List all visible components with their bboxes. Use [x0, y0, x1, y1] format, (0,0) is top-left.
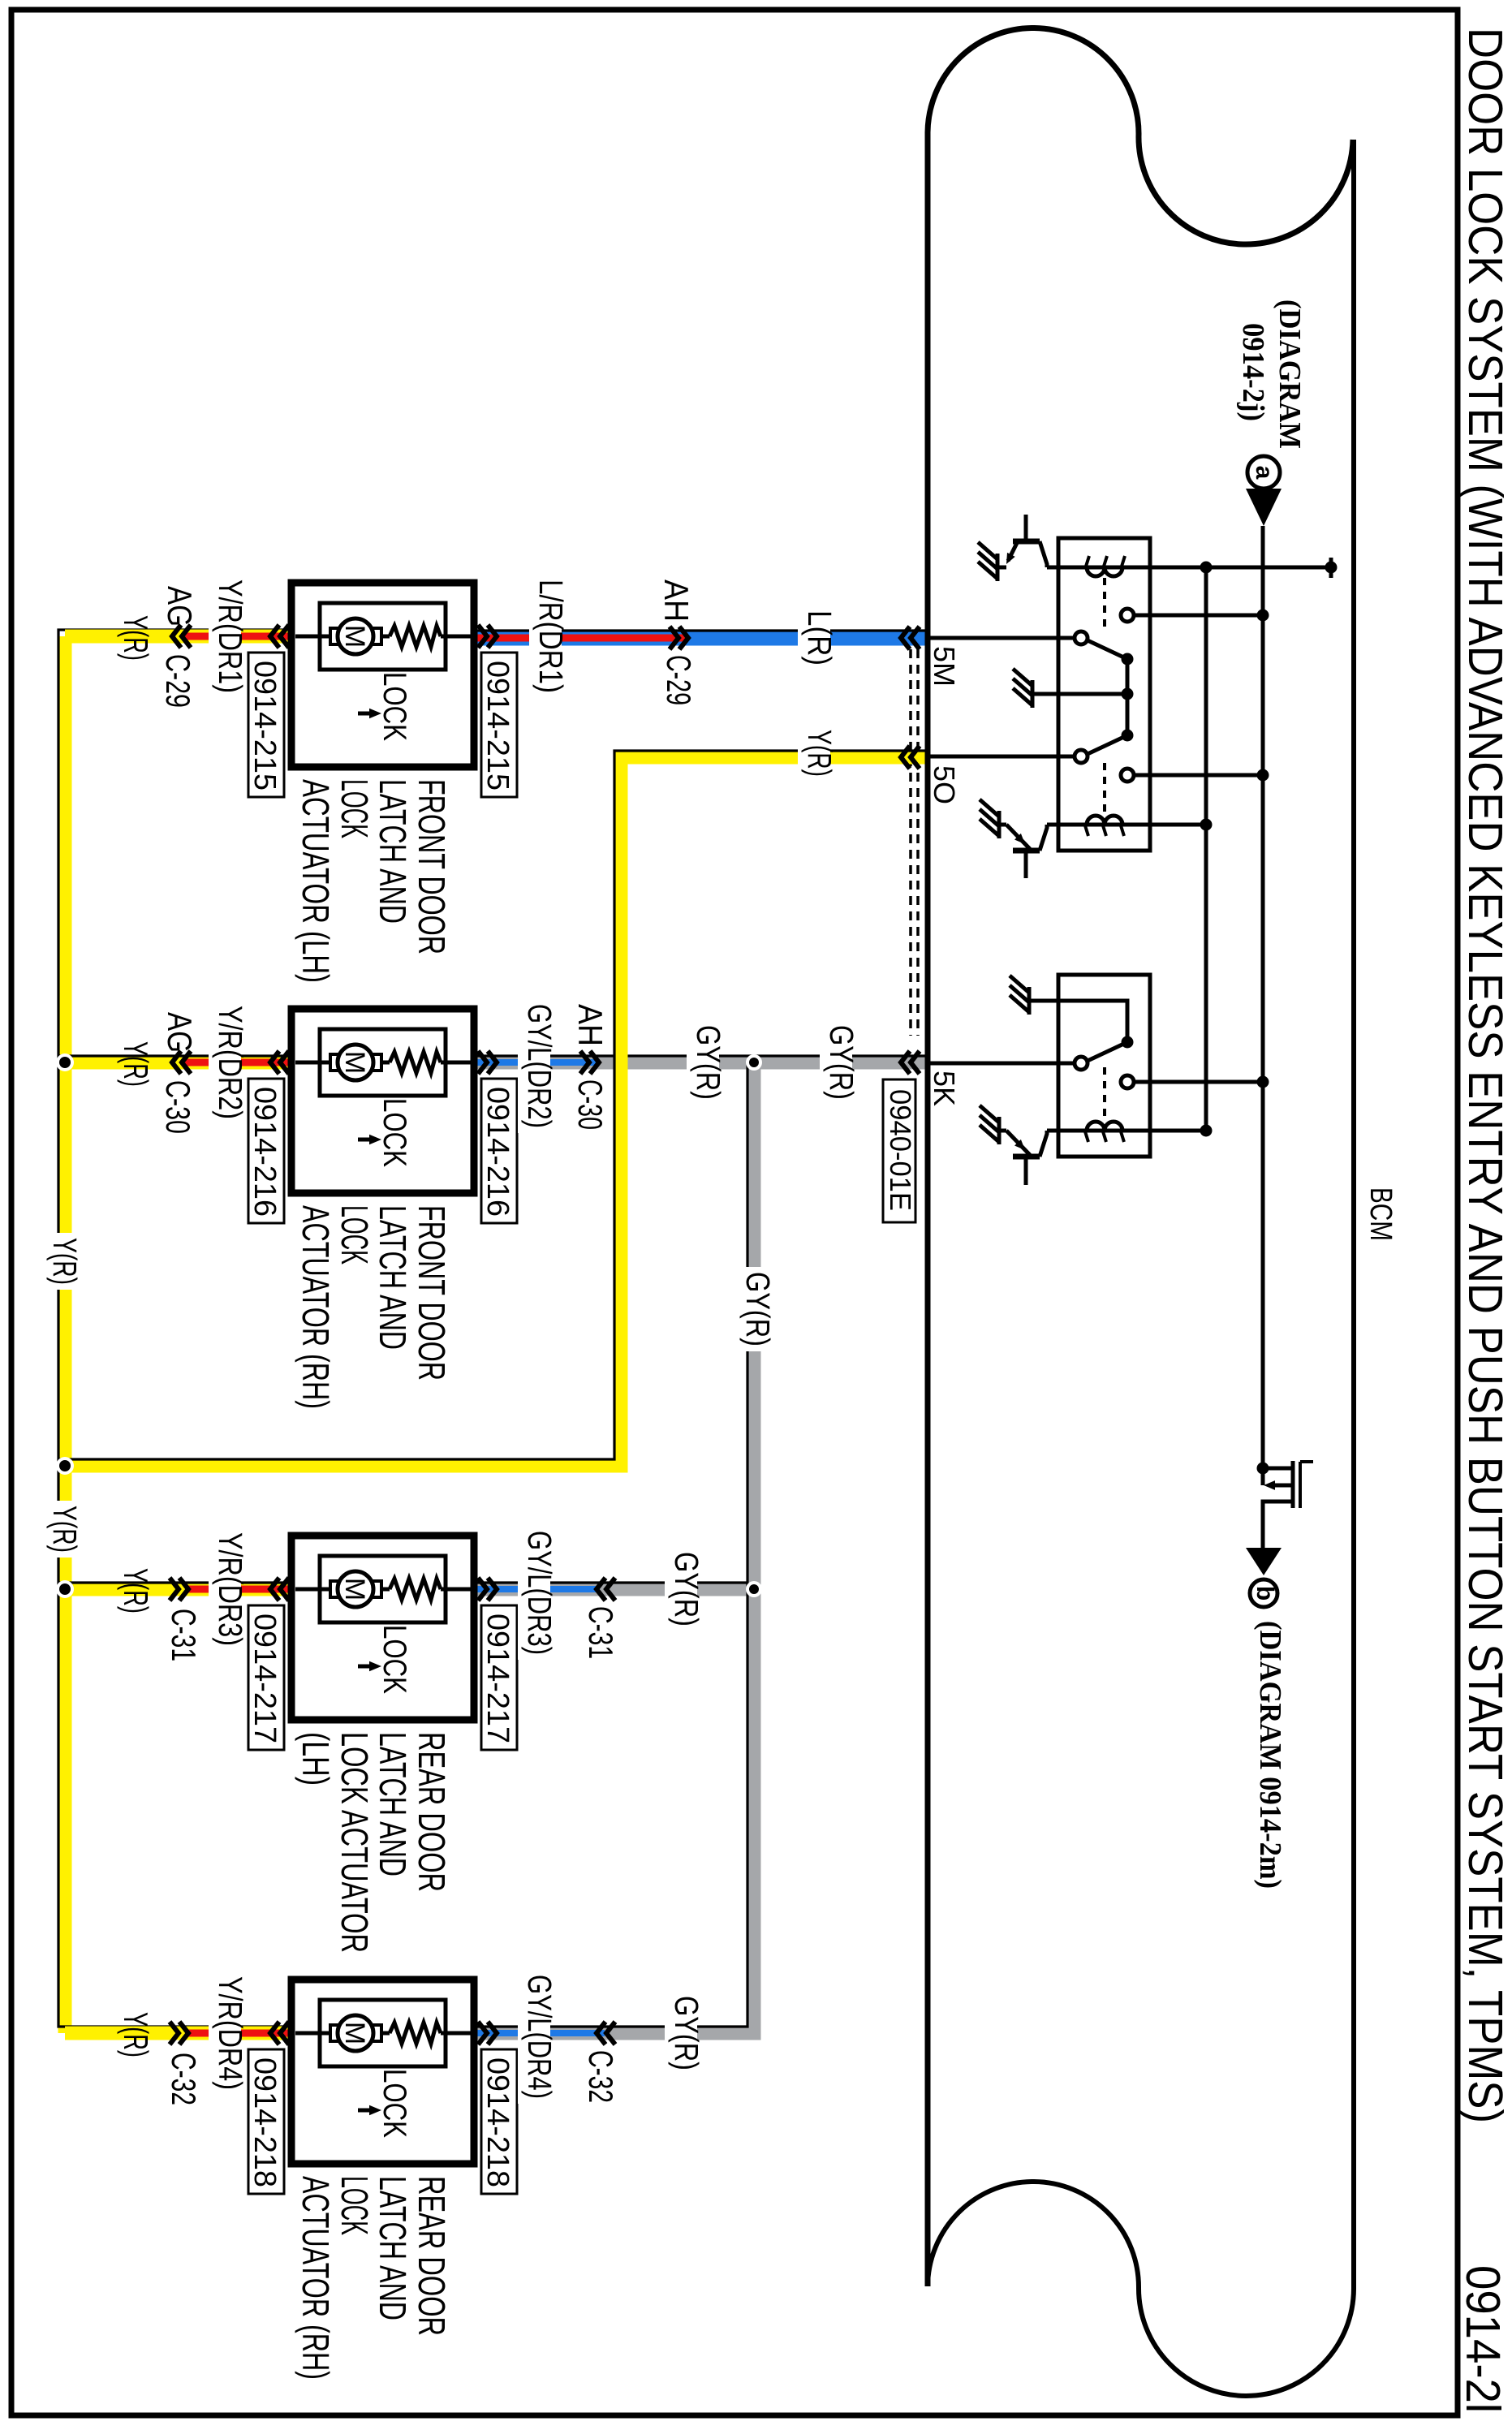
svg-text:ACTUATOR (RH): ACTUATOR (RH) [295, 2176, 337, 2380]
svg-text:LOCK: LOCK [334, 1205, 376, 1265]
wire: GY(R) gray from rear LH actuator [472, 1583, 754, 1596]
coil K2 [1087, 1122, 1122, 1131]
contact K2 NC [1121, 1075, 1134, 1088]
label GY(R) x2 on 5K row [687, 1020, 719, 1105]
label Y/R(DR3) [209, 1527, 241, 1651]
svg-text:GY(R): GY(R) [690, 1025, 727, 1100]
svg-text:Y/R(DR3): Y/R(DR3) [212, 1532, 249, 1646]
wire: arm common link [1126, 659, 1130, 735]
svg-text:0914-216: 0914-216 [480, 1087, 515, 1217]
connector AG C-29 chevron [172, 625, 181, 648]
svg-text:M: M [339, 1578, 370, 1601]
contact K2 COM [1075, 1057, 1088, 1070]
wire: Q2 emitter to ground [999, 823, 1006, 827]
svg-text:0914-2l: 0914-2l [1456, 2265, 1510, 2413]
connector label box 0940-01E [883, 1079, 915, 1222]
wire: node a/b line [1261, 526, 1265, 1485]
connector 0914-215 chevron at box (right) [488, 625, 497, 648]
svg-text:LOCK: LOCK [377, 2069, 412, 2138]
svg-text:ACTUATOR (RH): ACTUATOR (RH) [295, 1205, 337, 1409]
label Y/R(DR2) [209, 1001, 241, 1124]
contact K1 COM2 [1075, 750, 1088, 763]
svg-text:Y(R): Y(R) [801, 730, 838, 777]
svg-text:C-32: C-32 [582, 2050, 620, 2103]
svg-text:Y/R(DR1): Y/R(DR1) [212, 579, 249, 693]
svg-text:(LH): (LH) [295, 1732, 337, 1786]
node b marker (DIAGRAM 0914-2m) [1246, 1548, 1282, 1575]
svg-text:0940-01E: 0940-01E [884, 1089, 917, 1211]
connector C-32 chevron (return) [597, 2022, 605, 2044]
wire: L(R) blue from front LH actuator to BCM 5M [472, 631, 930, 646]
transistor Q1 (coil1 driver) [1013, 539, 1040, 545]
connector 0914-215 chevron at box (left) [270, 625, 279, 648]
connector 0914-216 chevron at box (left) [270, 1051, 279, 1074]
wire: 5K to relay 2 contact [930, 1062, 1075, 1066]
svg-text:Y(R): Y(R) [46, 1506, 84, 1553]
wire: K1 NC2 to node a line [1133, 773, 1263, 778]
svg-text:C-32: C-32 [165, 2053, 203, 2105]
wire: Y/R(DR4) red stripe [185, 2030, 292, 2037]
svg-text:AG: AG [161, 586, 199, 627]
wire: 5O to relay 1 contact [930, 755, 1075, 759]
svg-text:FRONT DOOR: FRONT DOOR [411, 779, 453, 954]
svg-text:GY(R): GY(R) [739, 1272, 777, 1346]
svg-text:LOCK: LOCK [377, 1098, 412, 1167]
connector 0914-218 chevron at box (left) [270, 2022, 279, 2044]
wire: Y(R) branch to rear door LH actuator [65, 1583, 294, 1596]
wire: Y/R(DR1) red stripe [185, 633, 292, 640]
relay K1 actuation dashes [1103, 578, 1106, 631]
actuator box C-32 [291, 1980, 474, 2164]
svg-text:C-31: C-31 [582, 1606, 620, 1659]
svg-text:DOOR LOCK SYSTEM (WITH ADVANCE: DOOR LOCK SYSTEM (WITH ADVANCED KEYLESS … [1458, 28, 1512, 2123]
svg-text:GY(R): GY(R) [668, 1996, 705, 2070]
relay K2 actuation dashes [1103, 1067, 1106, 1122]
wire: GY(R) gray from rear RH actuator + vertical trunk [472, 1062, 754, 2033]
node: rail stub [1329, 558, 1333, 578]
node: gray junction rear LH [746, 1581, 762, 1597]
relay K1 box [1058, 538, 1150, 851]
svg-text:REAR DOOR: REAR DOOR [411, 2176, 453, 2336]
connector C-32 chevron (feed) [179, 2022, 188, 2044]
connector C-31 chevron (return) [597, 1578, 605, 1601]
contact K1 NC1 [1121, 609, 1134, 622]
svg-text:Y(R): Y(R) [117, 2012, 155, 2057]
label: Y(R) on bus (lower) [43, 1501, 75, 1558]
svg-text:M: M [339, 625, 370, 648]
contact K1 NC2 [1121, 769, 1134, 782]
coil K1b [1087, 816, 1122, 825]
svg-text:b: b [1251, 1586, 1278, 1601]
svg-text:GY/L(DR2): GY/L(DR2) [521, 1004, 558, 1128]
svg-text:(DIAGRAM: (DIAGRAM [1273, 299, 1307, 449]
wire: relay K1 coil2 feed [1047, 823, 1206, 827]
wire: L/R(DR1) red stripe [472, 635, 686, 642]
switch arm K1a [1088, 640, 1127, 659]
svg-text:5K: 5K [928, 1071, 961, 1106]
wire: Y/R(DR2) red stripe [185, 1059, 292, 1066]
svg-text:L/R(DR1): L/R(DR1) [532, 579, 570, 693]
switch arm K1b [1088, 735, 1127, 754]
connector label box 0914-218 (right) [481, 2049, 517, 2194]
connector label box 0914-218 (left) [248, 2049, 284, 2194]
svg-text:LATCH AND: LATCH AND [372, 779, 414, 924]
wire: coil supply rail [1204, 567, 1208, 1131]
connector AH C-30 chevron [590, 1051, 599, 1074]
wire: Q1 emitter to ground [997, 566, 1006, 570]
svg-text:LOCK: LOCK [334, 2176, 376, 2235]
svg-text:AH: AH [657, 579, 696, 622]
svg-text:LOCK: LOCK [377, 1625, 412, 1694]
wire: GY/L(DR2) blue stripe [472, 1059, 597, 1066]
actuator box C-29 [291, 583, 474, 767]
wire: K2 NC to node b line [1133, 1080, 1263, 1084]
svg-text:0914-217: 0914-217 [248, 1614, 282, 1743]
wire: GY(R) gray from front RH actuator to BCM 5K [472, 1056, 930, 1070]
svg-text:5O: 5O [928, 765, 961, 804]
connector chevron at BCM pin 5M [901, 627, 910, 649]
label GY(R) on vertical trunk [736, 1267, 769, 1351]
wire: relay K2 coil feed [1047, 1129, 1206, 1133]
wire: GY/L(DR3) blue stripe [472, 1586, 597, 1592]
svg-text:Y(R): Y(R) [117, 1568, 155, 1614]
wire: Y(R) branch to rear door RH actuator [65, 2027, 294, 2040]
connector label box 0914-215 (right) [481, 653, 517, 797]
svg-text:5M: 5M [928, 646, 961, 687]
label: Y(R) on bus (upper) [43, 1233, 75, 1290]
actuator box C-31 [291, 1536, 474, 1720]
connector label box 0914-216 (right) [481, 1079, 517, 1223]
connector grouping dashed lines (0940-01E) [909, 649, 912, 1036]
actuator box C-30 [291, 1009, 474, 1193]
connector label box 0914-217 (left) [248, 1605, 284, 1750]
svg-text:BCM: BCM [1363, 1187, 1398, 1241]
svg-text:C-31: C-31 [165, 1609, 203, 1661]
svg-text:LOCK: LOCK [334, 779, 376, 838]
connector 0914-217 chevron at box (right) [488, 1578, 497, 1601]
transistor Q3 (K2 coil driver) [1013, 1154, 1040, 1160]
svg-text:Y/R(DR2): Y/R(DR2) [212, 1006, 249, 1119]
svg-text:GY/L(DR3): GY/L(DR3) [521, 1531, 558, 1655]
svg-text:LOCK ACTUATOR: LOCK ACTUATOR [334, 1732, 376, 1953]
connector 0914-217 chevron at box (left) [270, 1578, 279, 1601]
wire: contact common to ground [1032, 692, 1127, 696]
svg-text:LATCH AND: LATCH AND [372, 1732, 414, 1876]
wire: K1 NC1 to node a line [1133, 614, 1263, 618]
connector AG C-30 chevron [172, 1051, 181, 1074]
svg-text:REAR DOOR: REAR DOOR [411, 1732, 453, 1892]
svg-text:L(R): L(R) [801, 610, 838, 666]
svg-text:a: a [1251, 466, 1277, 480]
label GY/L(DR3) [518, 1526, 550, 1660]
connector C-31 chevron (feed) [179, 1578, 188, 1601]
node: yellow bus junction (front RH feed) [56, 1053, 74, 1071]
label GY(R) rear LH row [665, 1547, 697, 1631]
svg-text:GY(R): GY(R) [668, 1552, 705, 1626]
connector label box 0914-215 (left) [248, 653, 284, 797]
svg-text:0914-215: 0914-215 [248, 661, 282, 791]
wire: Y(R) return to BCM pin 5O [65, 757, 930, 1466]
svg-text:(DIAGRAM 0914-2m): (DIAGRAM 0914-2m) [1253, 1621, 1287, 1889]
svg-text:LATCH AND: LATCH AND [372, 1205, 414, 1350]
svg-text:Y(R): Y(R) [46, 1238, 84, 1285]
node: yellow bus junction (5O return) [56, 1457, 74, 1475]
label GY/L(DR4) [518, 1970, 550, 2104]
switch arm K2 [1088, 1042, 1127, 1061]
coil K1a [1087, 567, 1122, 576]
svg-text:C-30: C-30 [571, 1079, 610, 1130]
label Y/R(DR1) [209, 575, 241, 698]
connector 0914-218 chevron at box (right) [488, 2022, 497, 2044]
node: yellow bus junction (rear LH feed) [56, 1580, 74, 1598]
relay K2 box [1058, 975, 1150, 1157]
ground (contact common) [1031, 680, 1035, 708]
connector chevron at BCM pin 5K [901, 1051, 910, 1074]
wire: K2 common-to-ground [1029, 1001, 1127, 1042]
ground (Q3 emitter) [997, 1117, 1002, 1144]
svg-text:AG: AG [161, 1012, 199, 1053]
wire: Y/R(DR3) red stripe [185, 1586, 292, 1593]
svg-text:M: M [339, 2022, 370, 2044]
svg-text:0914-216: 0914-216 [248, 1087, 282, 1217]
wire: Y(R) branch to front door RH actuator [65, 1056, 294, 1070]
svg-text:0914-215: 0914-215 [480, 661, 515, 791]
svg-text:Y/R(DR4): Y/R(DR4) [212, 1976, 249, 2090]
wire: 5M to relay 1 contact [930, 636, 1075, 640]
connector 0914-216 chevron at box (right) [488, 1051, 497, 1074]
ground (K2 common) [1027, 987, 1032, 1015]
svg-text:M: M [339, 1051, 370, 1074]
svg-text:C-30: C-30 [159, 1080, 197, 1134]
connector chevron at BCM pin 5O [901, 746, 910, 769]
wire: Y(R) branch to front door LH actuator [65, 630, 294, 644]
svg-text:Y(R): Y(R) [117, 615, 155, 661]
transistor Q4 (MOSFET to node b) [1257, 1463, 1269, 1475]
node: gray junction at 5K wire [746, 1054, 762, 1071]
contact K1 COM1 [1075, 631, 1088, 644]
svg-text:0914-218: 0914-218 [248, 2057, 282, 2187]
wire: Y(R) yellow bus (left) [58, 636, 72, 2033]
wire: GY/L(DR4) blue stripe [472, 2030, 605, 2036]
svg-text:LOCK: LOCK [377, 672, 412, 741]
label: Y(R) on 5O return wire [798, 725, 830, 782]
svg-text:C-29: C-29 [660, 655, 698, 705]
label GY(R) rear RH row [665, 1991, 697, 2075]
BCM module outline (torn ends) [928, 28, 1353, 2286]
svg-text:FRONT DOOR: FRONT DOOR [411, 1205, 453, 1381]
svg-text:0914-2j): 0914-2j) [1236, 323, 1270, 421]
svg-text:0914-218: 0914-218 [480, 2057, 515, 2187]
node: coil2/rail junction [1200, 819, 1213, 831]
svg-text:Y(R): Y(R) [117, 1041, 155, 1087]
svg-text:GY(R): GY(R) [823, 1025, 860, 1100]
label GY/L(DR2) [518, 999, 550, 1133]
ground (Q2 emitter) [997, 811, 1002, 838]
svg-text:AH: AH [571, 1004, 610, 1046]
transistor Q2 (coil2 driver) [1013, 848, 1040, 854]
svg-text:ACTUATOR (LH): ACTUATOR (LH) [295, 779, 337, 983]
label L(R) [798, 605, 830, 670]
wire: coil1 rail continuation [1206, 566, 1331, 570]
svg-text:GY/L(DR4): GY/L(DR4) [521, 1975, 558, 2099]
svg-text:LATCH AND: LATCH AND [372, 2176, 414, 2320]
ground (Q1 emitter) [996, 554, 1000, 581]
wire: relay K1 coil1 feed [1047, 566, 1206, 570]
connector AH C-29 chevron [679, 627, 688, 649]
svg-text:C-29: C-29 [159, 654, 197, 708]
svg-text:0914-217: 0914-217 [480, 1614, 515, 1743]
label L/R(DR1) [529, 575, 562, 698]
node: coil1/rail junction [1200, 562, 1213, 574]
label Y/R(DR4) [209, 1971, 241, 2095]
connector label box 0914-217 (right) [481, 1605, 517, 1750]
connector label box 0914-216 (left) [248, 1079, 284, 1223]
